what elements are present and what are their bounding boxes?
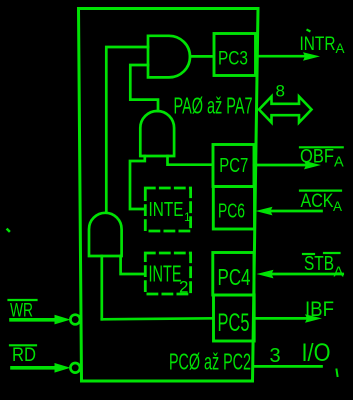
stray dot top right bbox=[308, 30, 310, 31]
arrowhead RD bbox=[55, 363, 71, 373]
wire RD input bbox=[12, 366, 56, 370]
wire I/O port lines bbox=[253, 365, 322, 368]
svg-text:STB: STB bbox=[304, 253, 334, 275]
svg-text:A: A bbox=[336, 41, 345, 56]
svg-text:A: A bbox=[334, 264, 344, 281]
svg-text:INTE: INTE bbox=[149, 261, 182, 287]
wire WR input bbox=[11, 318, 56, 322]
svg-text:PC4: PC4 bbox=[218, 264, 251, 290]
svg-text:3: 3 bbox=[270, 345, 281, 367]
arrowhead IBF bbox=[305, 314, 322, 323]
arrowhead WR bbox=[55, 315, 71, 325]
wire G1 output to PC3 bbox=[190, 55, 213, 58]
PC7 box bbox=[213, 145, 254, 187]
svg-text:INTE: INTE bbox=[149, 199, 184, 221]
wire G2 left input to INTE1 bbox=[130, 156, 145, 209]
PC4 box bbox=[213, 253, 254, 296]
arrowhead STB bbox=[257, 270, 274, 279]
AND gate G3 bbox=[89, 213, 122, 256]
wire G3 left input down to WR line bbox=[100, 256, 103, 319]
wire G3 right input to INTE2 bbox=[121, 256, 145, 274]
bus arrow PA0-PA7 bidirectional bbox=[259, 97, 312, 123]
port block outline U1 bbox=[79, 9, 259, 382]
svg-text:PC3: PC3 bbox=[218, 49, 248, 70]
overline WR bbox=[9, 299, 37, 301]
svg-text:2: 2 bbox=[179, 278, 188, 297]
bubble RD active-low bbox=[70, 363, 80, 373]
INTE1 latch box bbox=[145, 188, 190, 231]
svg-text:I/O: I/O bbox=[302, 339, 331, 367]
svg-text:PC7: PC7 bbox=[219, 155, 248, 177]
svg-text:IBF: IBF bbox=[305, 298, 334, 321]
svg-text:INTR: INTR bbox=[300, 34, 336, 55]
svg-text:1: 1 bbox=[184, 210, 191, 224]
wire STB input bbox=[272, 273, 343, 276]
wire WR node to PC5 input bbox=[102, 318, 213, 319]
INTE2 latch box bbox=[145, 253, 190, 294]
stray dot left margin bbox=[8, 230, 10, 232]
svg-text:ACK: ACK bbox=[301, 191, 334, 212]
wire IBF output bbox=[255, 317, 309, 320]
svg-text:PC5: PC5 bbox=[218, 309, 250, 337]
overline OBF bbox=[300, 146, 343, 148]
overline STB S part bbox=[303, 253, 314, 255]
overline RD bbox=[10, 344, 36, 346]
PC5 box bbox=[214, 295, 255, 341]
wire INTR output bbox=[257, 55, 304, 58]
svg-text:A: A bbox=[333, 199, 342, 214]
overline STB B part bbox=[324, 252, 340, 254]
arrowhead INTR bbox=[303, 52, 320, 61]
AND gate G1 bbox=[148, 36, 190, 78]
svg-text:8: 8 bbox=[276, 82, 285, 101]
wire ACK input bbox=[271, 210, 322, 213]
svg-text:OBF: OBF bbox=[300, 147, 334, 168]
overline ACK bbox=[300, 190, 341, 192]
svg-text:A: A bbox=[334, 155, 344, 171]
wire OBF output bbox=[254, 164, 306, 167]
svg-text:WR: WR bbox=[10, 301, 33, 322]
wire G2 right input to PC7 bbox=[168, 156, 213, 165]
svg-text:RD: RD bbox=[12, 345, 36, 366]
wire G2 output to G1 lower input bbox=[130, 65, 158, 111]
AND gate G2 bbox=[140, 111, 174, 156]
arrowhead OBF bbox=[304, 161, 321, 170]
PC3 box bbox=[214, 34, 256, 76]
svg-text:PAØ až PA7: PAØ až PA7 bbox=[174, 93, 253, 119]
svg-text:PCØ až PC2: PCØ až PC2 bbox=[169, 349, 251, 375]
PC6 box bbox=[213, 187, 254, 230]
wire G3 output to G1 upper input bbox=[106, 47, 148, 213]
bubble WR active-low bbox=[70, 315, 80, 325]
tick mark near I/O bbox=[337, 370, 338, 377]
arrowhead ACK bbox=[256, 207, 273, 216]
svg-text:PC6: PC6 bbox=[218, 201, 245, 223]
